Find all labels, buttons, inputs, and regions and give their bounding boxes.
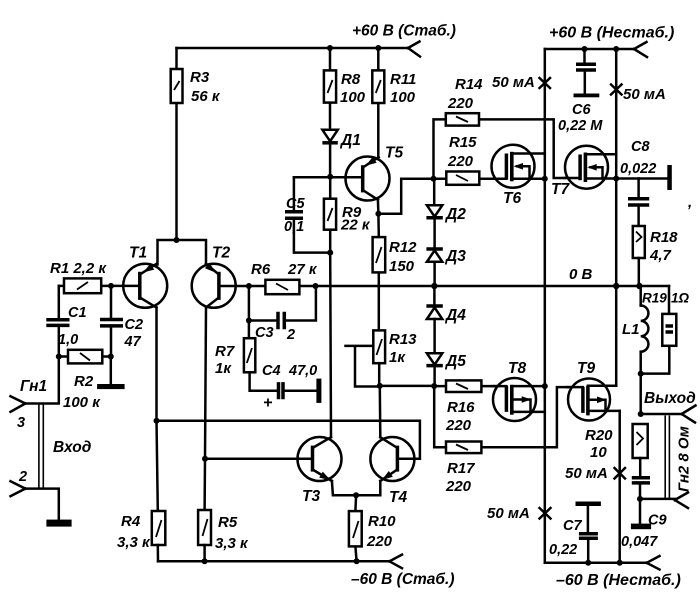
svg-text:C8: C8 [631, 139, 650, 155]
node R14/R15/D2 [431, 176, 437, 182]
resistor R11 [372, 48, 416, 158]
chassis bar at C6 [574, 94, 600, 98]
chassis bar at C8 line [667, 165, 672, 190]
node T5 base / D1 [327, 174, 333, 180]
svg-text:0,1: 0,1 [284, 219, 304, 235]
current marker x 50mA top left [492, 74, 550, 91]
wire T4 collector up (to R13 node) [379, 386, 382, 437]
capacitor C3 [249, 286, 316, 343]
resistor R18 [633, 226, 678, 286]
chassis bar at C9 [631, 524, 651, 530]
svg-text:3: 3 [17, 415, 25, 431]
node T1 collector / T4 base [154, 418, 160, 424]
wire -60V stab rail [158, 560, 389, 563]
transistor T2 [192, 245, 249, 308]
wire T5 base [294, 176, 346, 179]
node R2 left [56, 354, 62, 360]
svg-text:T8: T8 [508, 360, 526, 377]
node T9 source on rail [617, 560, 623, 566]
node D3/D4 on 0V bus [431, 283, 437, 289]
svg-text:R15: R15 [449, 134, 477, 151]
wire +60V nestab rail [545, 48, 634, 51]
resistor R1 [50, 260, 111, 293]
svg-text:220: 220 [447, 153, 474, 170]
wire T2 collector to R5 [203, 459, 206, 510]
svg-text:0,22: 0,22 [549, 542, 577, 558]
transistor T4 [370, 437, 414, 506]
wire R2 to ground [110, 357, 113, 385]
node R10 on rail [354, 558, 360, 564]
svg-text:1Ω: 1Ω [671, 291, 690, 306]
svg-text:+60 В (Нестаб.): +60 В (Нестаб.) [549, 25, 674, 42]
svg-text:10: 10 [590, 444, 607, 461]
svg-text:R14: R14 [455, 76, 483, 93]
svg-text:+60 В (Стаб.): +60 В (Стаб.) [352, 23, 456, 40]
svg-text:Гн1: Гн1 [20, 378, 47, 395]
transistor T9 MOSFET [567, 360, 620, 421]
svg-text:220: 220 [445, 478, 472, 495]
diode D1 [322, 130, 360, 177]
diode D3 [426, 248, 466, 286]
svg-text:Д1: Д1 [339, 132, 361, 149]
wire T3 emitter to common [332, 481, 356, 495]
wire R17/T8 source to T9 gate [545, 387, 583, 447]
wire pin3 to C1 [25, 357, 59, 404]
svg-text:R4: R4 [121, 513, 141, 530]
resistor R6 [249, 261, 318, 294]
resistor R15 [434, 134, 507, 185]
ground chassis bar input [46, 520, 71, 527]
inductor L1 [622, 286, 648, 374]
resistor R10 [349, 495, 396, 561]
capacitor C6 [558, 49, 603, 134]
node R8 on rail [327, 45, 333, 51]
transistor T5 [345, 145, 403, 201]
resistor R4 [117, 511, 165, 551]
svg-text:Гн2 8 Ом: Гн2 8 Ом [676, 426, 693, 492]
svg-text:C1: C1 [68, 305, 87, 321]
input cable double line [39, 405, 43, 489]
wire R5 to -60 rail [203, 545, 206, 561]
svg-text:Д4: Д4 [444, 307, 466, 324]
transistor T8 MOSFET [492, 360, 545, 421]
connector pin 2 arrow [11, 481, 26, 496]
node bus / R18 / L1 [636, 283, 642, 289]
svg-text:220: 220 [447, 95, 474, 112]
wire output to Gn2 pin1 [641, 413, 682, 416]
svg-text:3,3 к: 3,3 к [117, 534, 151, 551]
svg-text:100: 100 [340, 89, 366, 106]
svg-text:Д5: Д5 [444, 353, 466, 370]
svg-text:R16: R16 [447, 399, 475, 416]
diode D2 [426, 179, 466, 247]
svg-text:Д2: Д2 [444, 206, 466, 223]
node T1 base [108, 283, 114, 289]
svg-text:R1 2,2 к: R1 2,2 к [50, 260, 107, 277]
svg-text:R17: R17 [447, 460, 475, 477]
transistor T6 MOSFET [491, 145, 545, 207]
wire pin2 to ground [25, 489, 59, 520]
node D5 / R16 [431, 383, 437, 389]
svg-text:+: + [263, 395, 272, 412]
svg-text:0,22 М: 0,22 М [558, 118, 603, 134]
svg-text:1,0: 1,0 [58, 332, 78, 348]
svg-text:T9: T9 [577, 360, 595, 377]
svg-text:56 к: 56 к [191, 88, 221, 105]
svg-text:2: 2 [286, 327, 295, 343]
wire T5 collector to gates node [378, 179, 446, 214]
svg-text:4,7: 4,7 [649, 247, 672, 264]
diode D5 [426, 353, 466, 386]
wire Gn2 pin2 [640, 498, 675, 501]
connector Gn2 pin1 arrow [682, 406, 696, 423]
resistor R14 [434, 76, 566, 179]
transistor T3 [298, 437, 342, 505]
svg-text:100 к: 100 к [63, 394, 101, 411]
node C6 on rail [582, 46, 588, 52]
svg-text:Вход: Вход [53, 439, 92, 456]
node C3/R7 [246, 318, 252, 324]
resistor R13 trimmer [346, 330, 418, 386]
svg-text:47: 47 [124, 334, 142, 350]
wire T1/T2 emitter T-bar [158, 240, 207, 265]
node R9/C5 [327, 250, 333, 256]
svg-text:22 к: 22 к [340, 217, 371, 234]
svg-text:Д3: Д3 [444, 248, 466, 265]
current marker x 50mA bottom right [565, 465, 625, 482]
svg-text:C4: C4 [262, 363, 281, 379]
svg-text:220: 220 [445, 417, 472, 434]
svg-text:Выход: Выход [644, 390, 696, 407]
node R11 on rail [375, 45, 381, 51]
node R13 bottom / T4 collector [377, 383, 383, 389]
node T2 base / R6 [246, 283, 252, 289]
wire T9 source down to rail [618, 411, 621, 563]
resistor R19 [641, 286, 690, 374]
wire right nestab bus (T7 drain) [615, 49, 618, 386]
svg-text:50 мА: 50 мА [565, 465, 608, 482]
svg-text:T4: T4 [389, 489, 407, 506]
resistor R5 [198, 510, 249, 552]
diode D4 [426, 286, 466, 353]
svg-text:R11: R11 [390, 71, 416, 88]
capacitor C2 [100, 286, 143, 357]
wire D5 node down to R17 [434, 386, 446, 447]
connector -60V nestab arrow [647, 556, 660, 570]
resistor R2 [59, 350, 111, 411]
capacitor C1 [46, 286, 86, 357]
svg-text:3,3 к: 3,3 к [215, 535, 249, 552]
capacitor C5 [284, 177, 330, 252]
svg-text:50 мА: 50 мА [623, 86, 666, 103]
wire T2 collector down [205, 308, 206, 459]
svg-text:R5: R5 [218, 514, 238, 531]
svg-text:27 к: 27 к [287, 261, 318, 278]
svg-text:47,0: 47,0 [288, 363, 317, 379]
current marker x 50mA bottom left [487, 505, 551, 522]
resistor R8 [324, 48, 366, 130]
wire T1 collector down [155, 308, 158, 421]
node T2 collector / T3 base [202, 456, 208, 462]
node T3/T4 emitters [353, 492, 359, 498]
node Gn2 pin2 / C9 [637, 496, 643, 502]
resistor R9 [324, 199, 371, 234]
svg-text:R2: R2 [74, 373, 94, 390]
wire 0V bus [316, 285, 670, 288]
svg-text:R6: R6 [251, 261, 271, 278]
wire T3 collector up (to R9 node) [329, 177, 332, 437]
svg-text:0,022: 0,022 [620, 161, 656, 177]
svg-text:C6: C6 [572, 102, 591, 118]
svg-text:R8: R8 [341, 71, 361, 88]
connector pin 3 arrow [11, 396, 26, 412]
resistor R7 [215, 338, 255, 377]
svg-text:2: 2 [18, 469, 27, 485]
resistor R16 [434, 380, 506, 434]
wire T1 collector to R4 [157, 421, 158, 511]
node bus / T7-T9 [613, 283, 619, 289]
svg-text:R18: R18 [650, 229, 678, 246]
wire R4 to -60 rail [157, 545, 160, 561]
node T6 source on bus [542, 176, 548, 182]
svg-text:R13: R13 [389, 331, 417, 348]
svg-text:–60 В (Стаб.): –60 В (Стаб.) [351, 571, 455, 588]
wire left nestab bus (T6 drain / T8 chain) [544, 49, 547, 563]
capacitor C8 [620, 139, 656, 226]
svg-text:C3: C3 [255, 325, 274, 341]
node T-bar junction [174, 237, 180, 243]
capacitor C4 electrolytic [250, 363, 318, 412]
node R2 right [108, 354, 114, 360]
connector -60V stab arrow [389, 555, 402, 569]
resistor R20 [585, 424, 648, 461]
svg-text:0 В: 0 В [569, 266, 593, 283]
node C7 on rail [585, 560, 591, 566]
svg-text:R7: R7 [215, 343, 235, 360]
resistor R17 [445, 442, 545, 496]
connector Gn2 pin2 arrow [675, 493, 688, 509]
wire -60V nestab rail [545, 562, 647, 565]
svg-text:T5: T5 [385, 145, 403, 162]
wire T2 collector to T3 base [205, 458, 313, 461]
ground chassis bar under R2 [97, 384, 125, 389]
svg-text:–60 В (Нестаб.): –60 В (Нестаб.) [556, 572, 681, 589]
svg-text:T3: T3 [302, 488, 320, 505]
svg-text:L1: L1 [622, 321, 640, 338]
node T8 drain on bus [542, 383, 548, 389]
svg-text:1к: 1к [389, 349, 406, 366]
wire T2 base node down [248, 286, 251, 338]
connector +60V stab arrow [408, 42, 420, 57]
svg-text:C2: C2 [125, 317, 144, 333]
resistor R12 [373, 214, 418, 331]
wire +60V stab rail [177, 47, 409, 50]
node L1/R19 bottom [638, 371, 644, 377]
node R5 on rail [202, 558, 208, 564]
wire T7 source to chassis [616, 177, 667, 180]
wire T5 collector [377, 200, 380, 214]
svg-text:T7: T7 [551, 181, 570, 198]
resistor R3 [171, 48, 221, 240]
node T5 collector [375, 211, 381, 217]
svg-text:R10: R10 [368, 513, 396, 530]
svg-text:R12: R12 [389, 239, 417, 256]
wire R13 node to D5 node [380, 385, 434, 388]
svg-text:T2: T2 [212, 245, 230, 262]
wire to output node [639, 374, 642, 414]
node output [638, 411, 644, 417]
capacitor C9 [621, 458, 667, 550]
svg-text:R19: R19 [642, 291, 667, 306]
svg-text:1к: 1к [215, 360, 232, 377]
svg-text:R3: R3 [190, 69, 210, 86]
node T7 bus on rail [613, 46, 619, 52]
wire T4 emitter to common [356, 481, 380, 495]
svg-text:C7: C7 [563, 518, 582, 534]
svg-text:C5: C5 [286, 196, 305, 212]
svg-text:T1: T1 [129, 245, 147, 262]
svg-text:100: 100 [390, 89, 416, 106]
svg-text:0,047: 0,047 [621, 534, 658, 550]
svg-text:R20: R20 [585, 427, 613, 444]
transistor T7 MOSFET [551, 146, 616, 198]
svg-text:T6: T6 [503, 190, 521, 207]
node T7 source [613, 176, 619, 182]
current marker x 50mA top right [611, 85, 666, 104]
svg-text:50 мА: 50 мА [487, 505, 530, 522]
svg-text:220: 220 [366, 533, 393, 550]
svg-text:50 мА: 50 мА [492, 74, 535, 91]
wire T1 collector to T4 base [157, 421, 420, 459]
capacitor C7 [549, 502, 601, 563]
transistor T1 [111, 245, 167, 308]
svg-text:,: , [687, 194, 692, 211]
svg-text:150: 150 [389, 258, 415, 275]
connector +60V nestab arrow [634, 42, 647, 57]
output cable double line [665, 416, 669, 499]
chassis bar at C4 [316, 379, 321, 403]
node R6 right / C3 on 0V bus [313, 283, 319, 289]
